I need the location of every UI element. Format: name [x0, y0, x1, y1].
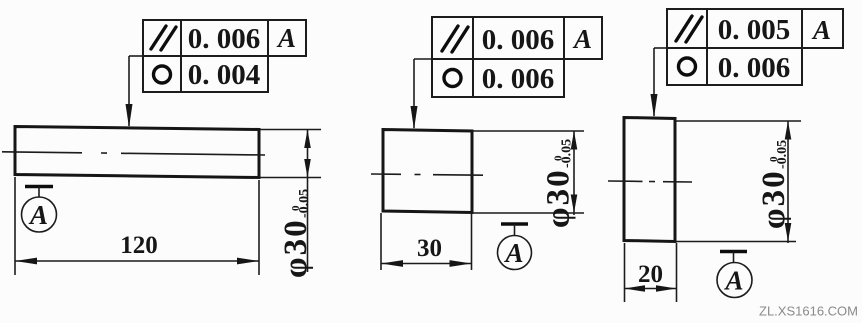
svg-text:A: A [723, 266, 743, 296]
svg-text:φ30: φ30 [278, 218, 314, 278]
svg-text:ZL.XS1616.COM: ZL.XS1616.COM [759, 304, 858, 319]
svg-text:0. 006: 0. 006 [188, 23, 261, 55]
svg-text:A: A [503, 238, 523, 268]
svg-text:A: A [811, 15, 831, 45]
svg-text:0. 006: 0. 006 [718, 52, 791, 84]
svg-text:0. 006: 0. 006 [482, 63, 555, 95]
svg-text:-0.05: -0.05 [560, 139, 575, 168]
svg-text:0. 005: 0. 005 [718, 14, 791, 46]
svg-text:φ30: φ30 [756, 169, 792, 229]
svg-text:120: 120 [120, 232, 158, 259]
svg-text:A: A [28, 200, 48, 230]
svg-text:-0.05: -0.05 [775, 140, 790, 169]
svg-text:A: A [276, 23, 296, 53]
svg-text:30: 30 [417, 235, 442, 262]
svg-text:20: 20 [638, 261, 663, 288]
svg-text:A: A [572, 24, 592, 54]
svg-text:0. 006: 0. 006 [482, 24, 555, 56]
svg-text:0. 004: 0. 004 [188, 59, 261, 91]
svg-text:-0.05: -0.05 [297, 189, 312, 218]
svg-text:φ30: φ30 [541, 168, 577, 228]
